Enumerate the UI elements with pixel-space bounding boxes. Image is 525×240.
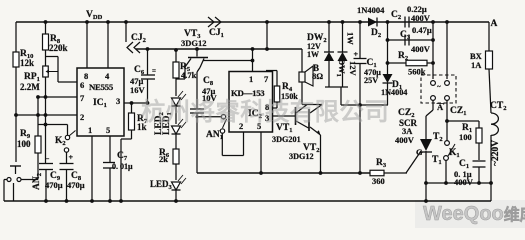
svg-text:3: 3 xyxy=(116,96,120,106)
svg-text:杭州将睿科技有限公司: 杭州将睿科技有限公司 xyxy=(141,97,389,126)
svg-text:~: ~ xyxy=(437,83,441,91)
svg-text:100: 100 xyxy=(17,139,31,149)
svg-text:3DG12: 3DG12 xyxy=(181,38,207,48)
svg-text:2.2M: 2.2M xyxy=(20,82,40,92)
svg-text:G: G xyxy=(416,147,423,157)
svg-text:KD—153: KD—153 xyxy=(231,88,265,98)
svg-text:′: ′ xyxy=(443,102,445,110)
svg-text:WeeQoo维库: WeeQoo维库 xyxy=(423,203,525,225)
svg-text:5: 5 xyxy=(106,125,110,135)
svg-text:1W: 1W xyxy=(346,32,356,45)
svg-text:470μ: 470μ xyxy=(45,180,63,190)
svg-text:16V: 16V xyxy=(130,85,146,95)
svg-text:360: 360 xyxy=(372,176,385,186)
svg-text:A: A xyxy=(491,19,498,29)
svg-text:1N4004: 1N4004 xyxy=(381,88,407,97)
svg-text:8: 8 xyxy=(84,71,88,81)
svg-text:100: 100 xyxy=(459,132,472,142)
svg-text:12k: 12k xyxy=(20,58,34,68)
svg-text:3DG201: 3DG201 xyxy=(272,135,301,144)
svg-text:8Ω: 8Ω xyxy=(312,71,323,81)
svg-text:400V: 400V xyxy=(411,13,431,23)
svg-text:0.47μ: 0.47μ xyxy=(412,25,432,35)
svg-text:400V: 400V xyxy=(411,44,431,54)
svg-text:+: + xyxy=(69,153,74,162)
svg-text:1A: 1A xyxy=(471,60,482,70)
svg-text:25V: 25V xyxy=(364,76,378,85)
svg-text:+: + xyxy=(354,50,359,59)
svg-text:4.7k: 4.7k xyxy=(181,70,197,80)
svg-text:1: 1 xyxy=(88,125,92,135)
svg-text:3DG12: 3DG12 xyxy=(289,152,314,161)
svg-text:=: = xyxy=(152,67,156,75)
svg-text:~220V: ~220V xyxy=(491,140,501,166)
svg-text:2k: 2k xyxy=(159,154,168,164)
svg-text:0. 01μ: 0. 01μ xyxy=(112,162,133,171)
svg-text:400V: 400V xyxy=(454,177,474,187)
svg-text:470μ: 470μ xyxy=(67,180,85,190)
svg-text:−: − xyxy=(46,155,50,163)
svg-text:220k: 220k xyxy=(49,43,68,53)
svg-text:6: 6 xyxy=(80,80,84,90)
svg-text:1: 1 xyxy=(249,74,253,84)
svg-text:2: 2 xyxy=(80,112,84,122)
svg-text:1W: 1W xyxy=(307,50,319,59)
svg-text:400V: 400V xyxy=(395,135,415,145)
svg-text:NE555: NE555 xyxy=(89,82,114,92)
svg-text:1N4004: 1N4004 xyxy=(357,5,385,15)
